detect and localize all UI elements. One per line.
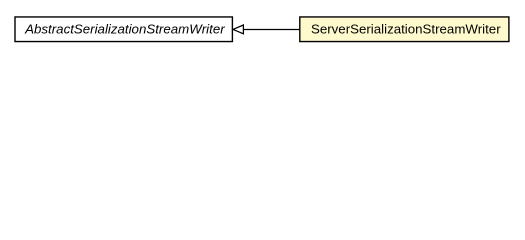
svg-text:ServerSerializationStreamWrite: ServerSerializationStreamWriter: [311, 21, 501, 36]
wire inheritance line: [244, 28, 300, 30]
class box AbstractSerializationStreamWriter: [15, 17, 232, 42]
class box ServerSerializationStreamWriter: [300, 17, 509, 42]
inheritance arrowhead (hollow triangle): [233, 25, 243, 34]
svg-text:AbstractSerializationStreamWri: AbstractSerializationStreamWriter: [24, 21, 225, 36]
background: [0, 0, 525, 59]
